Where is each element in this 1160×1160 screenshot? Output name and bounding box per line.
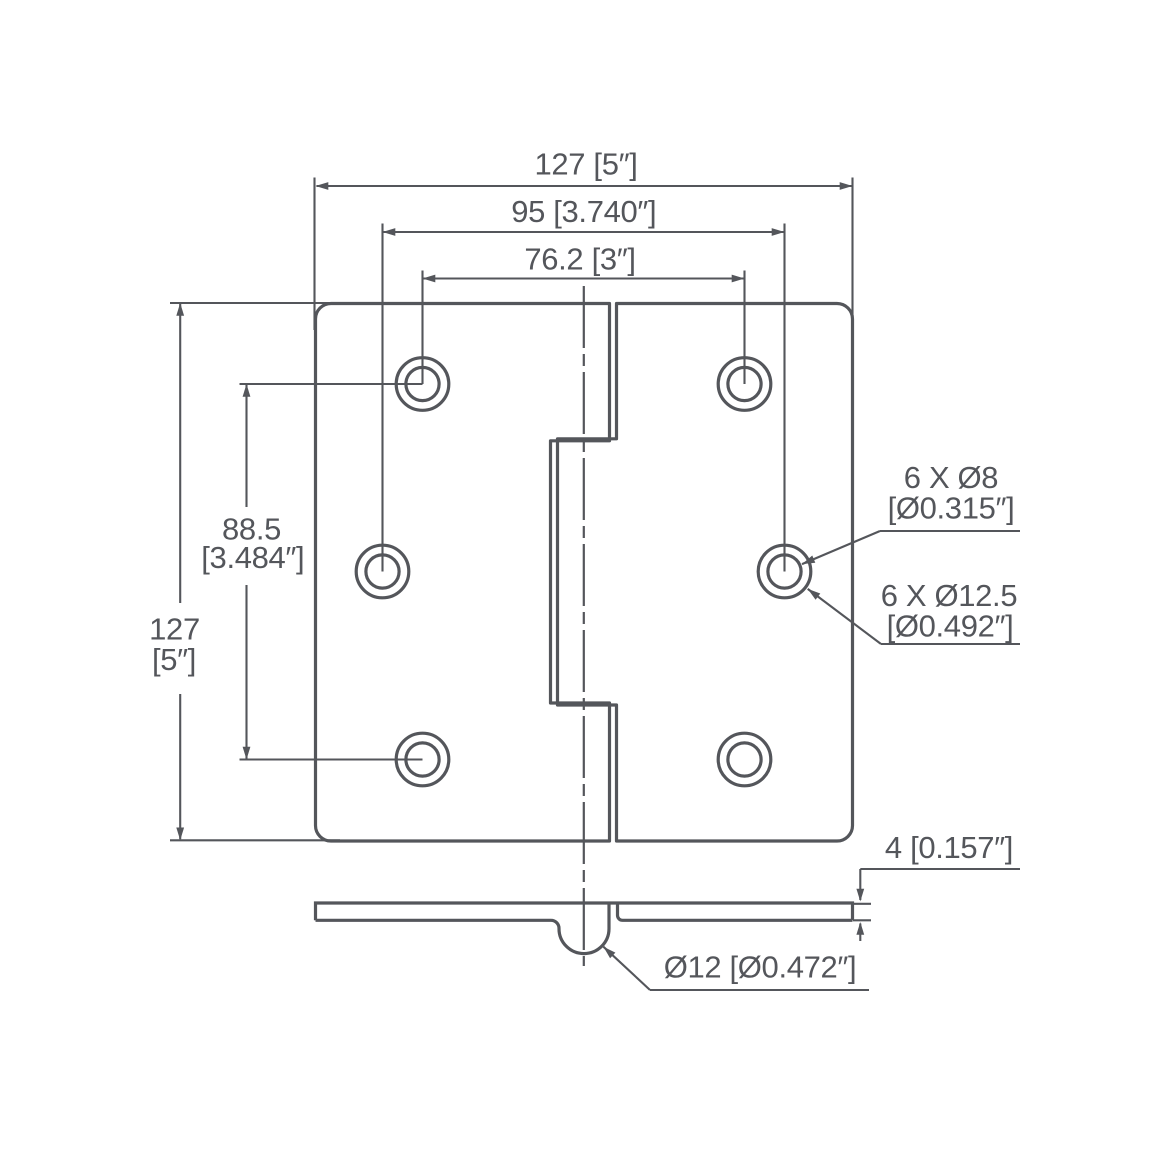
- hole mid-left countersink Ø12.5: [356, 545, 409, 598]
- vertical centerline (dash-dot): [583, 286, 585, 966]
- hole bottom-right bore Ø8: [728, 743, 761, 776]
- svg-text:[Ø0.492″]: [Ø0.492″]: [887, 609, 1014, 644]
- hole bottom-right countersink Ø12.5: [718, 733, 771, 786]
- hole bottom-left countersink Ø12.5: [396, 733, 449, 786]
- leader Ø12 [Ø0.472"]: underline and leader line with arrow: [650, 989, 869, 991]
- hole top-left bore Ø8: [406, 367, 439, 400]
- svg-text:76.2 [3″]: 76.2 [3″]: [524, 242, 635, 277]
- hinge left leaf outline: [316, 304, 610, 842]
- svg-text:Ø12 [Ø0.472″]: Ø12 [Ø0.472″]: [664, 949, 857, 984]
- dimension 88.5 [3.484"]: extension lines to left holes: [240, 383, 423, 385]
- svg-text:[Ø0.315″]: [Ø0.315″]: [888, 491, 1015, 526]
- dimension 127 [5"] left: extension lines: [170, 302, 340, 304]
- dimension 95 [3.740"]: extension lines down to middle holes: [381, 224, 383, 572]
- svg-text:127 [5″]: 127 [5″]: [535, 147, 638, 182]
- hole mid-right bore Ø8: [768, 555, 801, 588]
- dimension 127 [5"] left: dimension line (broken for text) with arrows: [179, 304, 181, 603]
- dimension 76.2 [3"]: extension lines down to top holes: [421, 271, 423, 385]
- leader 6 X Ø8: underline and leader line with arrow: [880, 530, 1020, 532]
- leader 6 X Ø12.5: underline and leader line with arrow: [881, 643, 1020, 645]
- dimension 127 [5"] top: dimension line with arrows: [317, 185, 852, 187]
- dimension 88.5 [3.484"]: dimension line (broken for text) with arrows: [245, 385, 247, 507]
- hole top-left countersink Ø12.5: [396, 358, 449, 411]
- dimension 127 [5"] top: extension lines: [313, 178, 315, 331]
- side view plate: left end, top surface, right end: [316, 903, 853, 920]
- hole mid-right countersink Ø12.5: [758, 545, 811, 598]
- side view left leaf bottom + knuckle curl: [316, 905, 610, 954]
- dimension 95 [3.740"]: dimension line with arrows: [384, 231, 784, 233]
- svg-text:[3.484″]: [3.484″]: [201, 540, 304, 575]
- hole bottom-left bore Ø8: [406, 743, 439, 776]
- dimension 4 [0.157"]: leader underline, arrows, extension lines: [860, 868, 1020, 870]
- dimension 76.2 [3"]: dimension line with arrows: [424, 277, 744, 279]
- hole top-right bore Ø8: [728, 367, 761, 400]
- svg-text:[5″]: [5″]: [152, 642, 196, 677]
- hole mid-left bore Ø8: [366, 555, 399, 588]
- svg-text:95 [3.740″]: 95 [3.740″]: [511, 194, 656, 229]
- svg-text:4 [0.157″]: 4 [0.157″]: [885, 830, 1013, 865]
- hinge right leaf outline: [558, 304, 853, 842]
- hole top-right countersink Ø12.5: [718, 358, 771, 411]
- side view right leaf bottom + end fillet: [618, 905, 853, 921]
